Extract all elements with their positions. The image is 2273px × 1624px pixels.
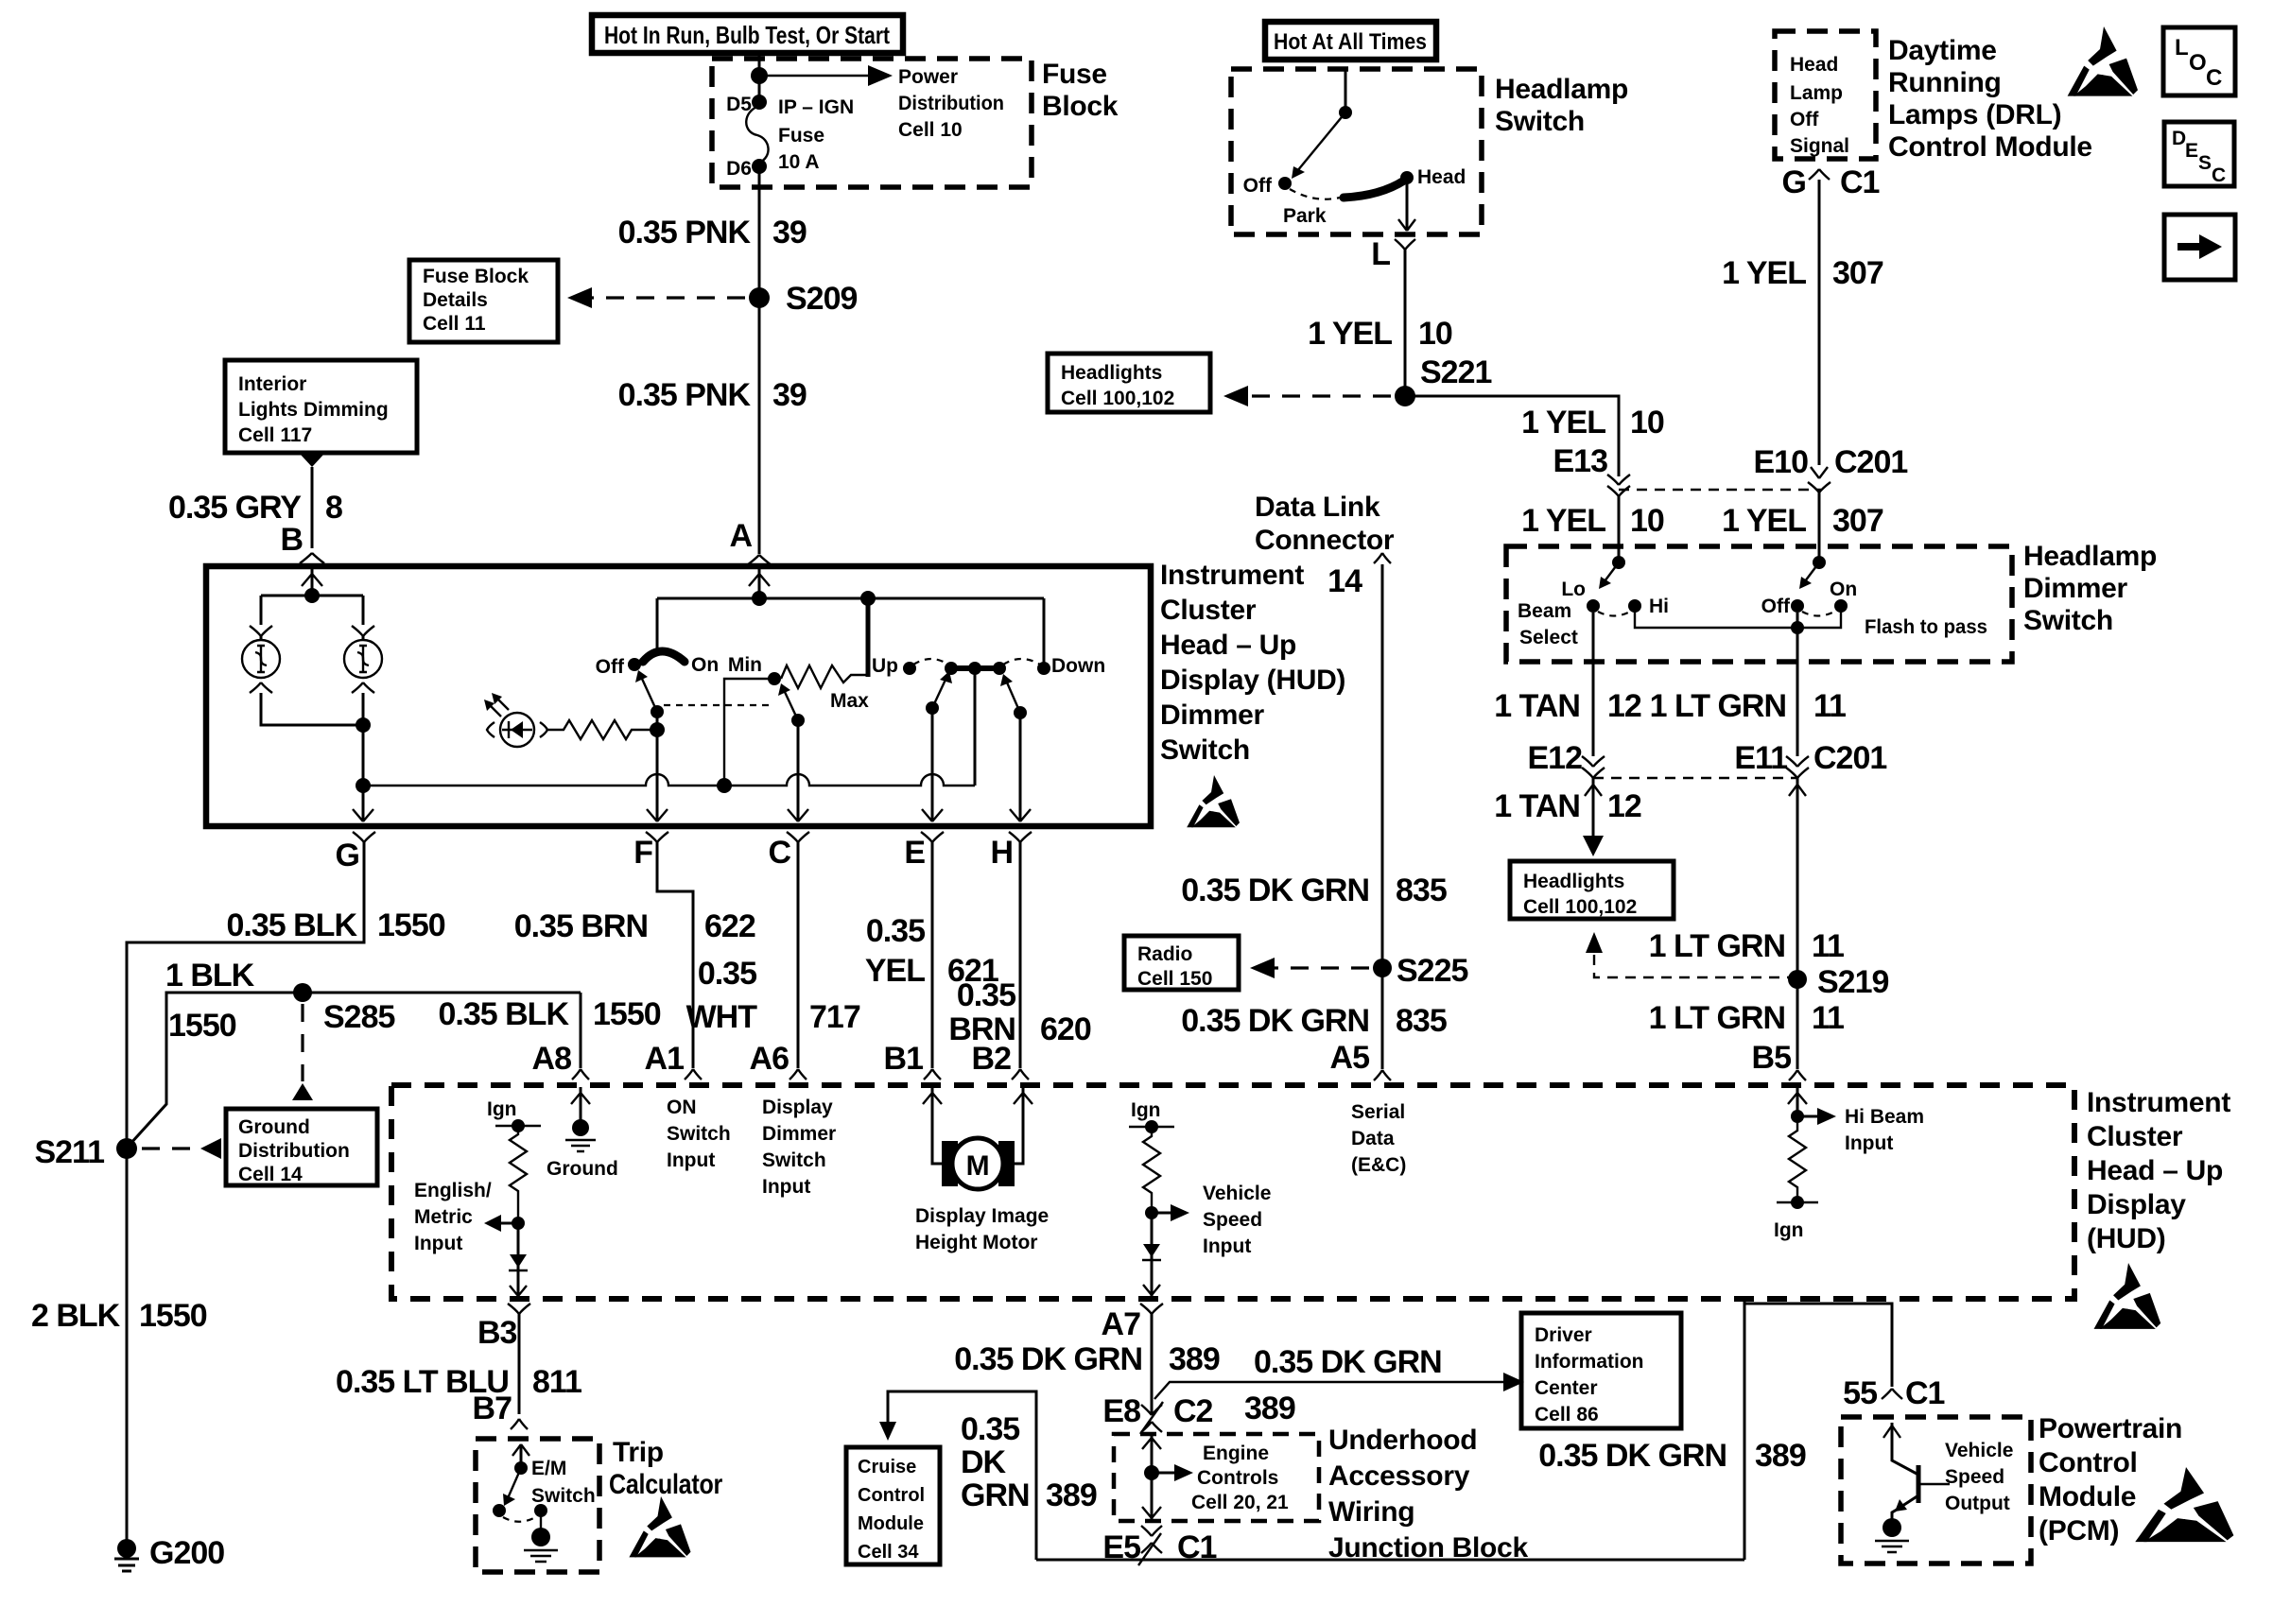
wire E11 to B5 xyxy=(1796,778,1799,1069)
svg-text:Power: Power xyxy=(898,66,958,88)
svg-text:ON: ON xyxy=(667,1097,697,1118)
svg-text:Headlamp: Headlamp xyxy=(1495,74,1628,105)
box Ground Distribution Cell 14 xyxy=(226,1109,377,1185)
connector A chevron xyxy=(747,555,772,565)
svg-text:Input: Input xyxy=(1845,1132,1893,1154)
box Headlights Cell 100,102 lower xyxy=(1510,861,1674,919)
svg-text:Input: Input xyxy=(414,1233,462,1254)
dashed S225 to radio xyxy=(1267,966,1369,969)
svg-text:Cluster: Cluster xyxy=(1160,595,1257,626)
switch arm HUD on/off xyxy=(651,705,664,718)
svg-text:M: M xyxy=(966,1150,990,1182)
fuse block dashed box xyxy=(712,59,1032,187)
svg-text:Fuse: Fuse xyxy=(1042,59,1107,90)
svg-text:D6: D6 xyxy=(726,158,752,180)
svg-text:1550: 1550 xyxy=(377,907,445,943)
svg-text:B1: B1 xyxy=(884,1041,924,1077)
svg-text:1550: 1550 xyxy=(593,996,661,1032)
ESD symbol below HUD label xyxy=(2094,1263,2161,1329)
svg-text:Down: Down xyxy=(1051,655,1105,677)
node D6 xyxy=(752,159,767,174)
wire E to B1 xyxy=(931,842,934,1068)
svg-text:O: O xyxy=(2189,50,2207,76)
node A bus junction xyxy=(752,591,767,606)
DESC box xyxy=(2164,122,2234,186)
svg-text:S219: S219 xyxy=(1817,964,1888,1000)
svg-text:E13: E13 xyxy=(1553,443,1608,479)
wire below lamps xyxy=(261,693,363,786)
node lamp bottom junction xyxy=(356,717,371,733)
connector C chevron xyxy=(787,832,809,842)
engine controls dashed box xyxy=(1114,1434,1319,1521)
wire slider mid to bottom bus xyxy=(974,668,977,786)
node S285 xyxy=(293,983,312,1002)
wire C to A6 xyxy=(797,842,800,1068)
node D5 xyxy=(752,95,767,110)
connector chevron right lamp xyxy=(352,626,374,636)
label Instrument Cluster Head-Up Display (HUD) right side xyxy=(2087,1087,2230,1254)
node pot top junction xyxy=(860,591,876,606)
svg-text:E12: E12 xyxy=(1528,740,1583,776)
svg-text:(HUD): (HUD) xyxy=(2087,1223,2165,1254)
wire A8 drop xyxy=(580,993,582,1068)
svg-text:A: A xyxy=(729,518,752,554)
svg-text:717: 717 xyxy=(809,999,860,1035)
svg-text:0.35 PNK: 0.35 PNK xyxy=(618,215,752,251)
svg-text:Data Link: Data Link xyxy=(1255,492,1380,523)
svg-text:E11: E11 xyxy=(1734,740,1787,776)
svg-text:Running: Running xyxy=(1888,67,2002,98)
label Serial Data (E&C) xyxy=(1351,1101,1406,1176)
instrument cluster HUD dimmer switch box xyxy=(206,566,1151,826)
svg-text:Data: Data xyxy=(1351,1128,1395,1149)
ESD symbol PCM xyxy=(2135,1467,2233,1542)
PCM dashed box xyxy=(1841,1417,2031,1564)
box Fuse Block Details Cell 11 xyxy=(409,260,558,342)
svg-text:12: 12 xyxy=(1607,788,1641,824)
svg-text:Serial: Serial xyxy=(1351,1101,1405,1123)
slider bar xyxy=(951,665,999,671)
connector DLC chevron xyxy=(1374,553,1391,563)
fuse F IP-IGN 10A xyxy=(746,106,768,163)
flash to pass link xyxy=(1635,606,1841,628)
svg-text:Underhood: Underhood xyxy=(1328,1425,1477,1456)
svg-text:835: 835 xyxy=(1396,1003,1447,1039)
svg-text:C201: C201 xyxy=(1834,444,1907,480)
ESD symbol below dimmer switch label xyxy=(1187,775,1240,827)
ESD symbol DRL xyxy=(2068,26,2138,96)
diode symbol on B3 wire xyxy=(517,1223,520,1297)
svg-text:Control Module: Control Module xyxy=(1888,131,2092,163)
svg-text:0.35 DK GRN: 0.35 DK GRN xyxy=(1181,1003,1369,1039)
diode on A7 wire xyxy=(1151,1213,1154,1296)
svg-text:Calculator: Calculator xyxy=(609,1469,723,1500)
svg-text:1 TAN: 1 TAN xyxy=(1494,788,1580,824)
svg-text:Information: Information xyxy=(1535,1351,1644,1373)
svg-text:Instrument: Instrument xyxy=(2087,1087,2230,1118)
svg-text:S: S xyxy=(2198,152,2212,174)
svg-text:Head – Up: Head – Up xyxy=(2087,1155,2223,1186)
svg-text:Trip: Trip xyxy=(613,1437,664,1468)
svg-text:0.35 DK GRN: 0.35 DK GRN xyxy=(1254,1344,1442,1380)
lamp left (illumination bulb) xyxy=(242,636,280,678)
node S211 xyxy=(116,1138,137,1159)
LOC box xyxy=(2163,27,2235,95)
svg-text:Display (HUD): Display (HUD) xyxy=(1160,665,1345,696)
wire off to E11 xyxy=(1796,613,1799,756)
dashed connector line C201 upper xyxy=(1619,489,1821,491)
svg-text:C1: C1 xyxy=(1905,1375,1945,1411)
switch on/off thick arc xyxy=(643,651,685,662)
svg-text:Cell 117: Cell 117 xyxy=(238,424,312,446)
connector A1 chevron xyxy=(685,1069,702,1080)
wire G exit with arrow xyxy=(362,786,365,821)
svg-text:Interior: Interior xyxy=(238,373,306,395)
wire 0.35 PNK 39 from fuse to S209 xyxy=(758,170,761,554)
connector E chevron xyxy=(921,832,944,842)
svg-text:Module: Module xyxy=(2039,1481,2136,1512)
svg-text:0.35: 0.35 xyxy=(961,1411,1019,1447)
svg-text:11: 11 xyxy=(1812,928,1844,964)
wire E12 down with arrow to headlights xyxy=(1592,778,1595,841)
svg-text:1 YEL: 1 YEL xyxy=(1521,405,1605,441)
svg-text:Hot In Run, Bulb Test, Or Star: Hot In Run, Bulb Test, Or Start xyxy=(604,21,890,49)
svg-text:Display: Display xyxy=(762,1097,833,1118)
resistor photocell series xyxy=(547,720,657,739)
wire 1 YEL 307 from DRL xyxy=(1818,180,1821,465)
dashed coupling link xyxy=(664,704,773,706)
svg-text:YEL: YEL xyxy=(865,953,925,989)
svg-text:Details: Details xyxy=(423,289,488,311)
arrow up to headlights lower box xyxy=(1586,932,1603,953)
connector B2 chevron xyxy=(1012,1069,1029,1080)
svg-text:On: On xyxy=(1830,579,1857,600)
box Interior Lights Dimming Cell 117 xyxy=(225,360,417,453)
chevron right of photocell xyxy=(540,722,547,737)
svg-text:B7: B7 xyxy=(473,1391,512,1426)
svg-text:Powertrain: Powertrain xyxy=(2039,1413,2182,1444)
svg-text:Flash to pass: Flash to pass xyxy=(1865,616,1987,638)
svg-text:1 BLK: 1 BLK xyxy=(165,958,255,993)
svg-text:Output: Output xyxy=(1945,1493,2010,1514)
svg-text:12: 12 xyxy=(1607,688,1641,724)
bottom bus with hops xyxy=(363,774,975,786)
svg-text:C: C xyxy=(768,835,790,871)
svg-text:C1: C1 xyxy=(1840,164,1880,200)
svg-text:Hot At All Times: Hot At All Times xyxy=(1274,29,1427,55)
svg-text:Cell 150: Cell 150 xyxy=(1137,968,1212,990)
svg-text:Fuse: Fuse xyxy=(778,125,824,147)
svg-text:Input: Input xyxy=(762,1176,810,1198)
wire B entry arrow inside box xyxy=(311,569,314,596)
lo beam select switch xyxy=(1587,556,1641,616)
svg-text:0.35 DK GRN: 0.35 DK GRN xyxy=(1181,872,1369,908)
svg-text:0.35: 0.35 xyxy=(866,913,925,949)
svg-text:DK: DK xyxy=(961,1444,1007,1480)
switch arm E xyxy=(926,701,939,715)
svg-text:Controls: Controls xyxy=(1197,1467,1278,1489)
HUD dashed box xyxy=(391,1085,2074,1299)
svg-text:Hi: Hi xyxy=(1649,596,1669,617)
connector A6 chevron xyxy=(789,1069,807,1080)
svg-text:307: 307 xyxy=(1832,255,1883,291)
svg-text:Switch: Switch xyxy=(531,1485,596,1507)
svg-text:Off: Off xyxy=(1761,596,1791,617)
wire G 0.35 BLK 1550 xyxy=(127,842,364,1541)
label Display Dimmer Switch Input xyxy=(762,1097,836,1198)
headlamp switch internals xyxy=(1278,69,1415,231)
svg-text:Wiring: Wiring xyxy=(1328,1496,1414,1528)
svg-text:Height Motor: Height Motor xyxy=(915,1232,1037,1253)
svg-text:10: 10 xyxy=(1630,503,1664,539)
svg-text:S285: S285 xyxy=(323,999,394,1035)
svg-text:Cell 14: Cell 14 xyxy=(238,1164,303,1185)
wire arrow to Power Distribution xyxy=(759,75,872,77)
svg-text:Fuse Block: Fuse Block xyxy=(423,266,529,287)
wire E drop xyxy=(931,708,934,821)
svg-text:1 LT GRN: 1 LT GRN xyxy=(1649,1000,1785,1036)
node english/metric junction xyxy=(512,1217,525,1230)
svg-text:L: L xyxy=(1371,236,1390,272)
wire F drop xyxy=(656,712,659,821)
svg-text:Block: Block xyxy=(1042,91,1119,122)
wire Min terminal to bus xyxy=(724,679,774,786)
svg-text:D5: D5 xyxy=(726,94,752,115)
svg-text:B: B xyxy=(280,522,303,558)
svg-text:English/: English/ xyxy=(414,1180,492,1201)
svg-text:F: F xyxy=(633,835,652,871)
svg-text:Head: Head xyxy=(1417,166,1466,188)
svg-text:Ground: Ground xyxy=(238,1116,310,1138)
svg-text:39: 39 xyxy=(772,377,807,413)
svg-text:0.35 DK GRN: 0.35 DK GRN xyxy=(1538,1438,1726,1474)
wire bus drop to On/Off switch xyxy=(656,598,659,653)
svg-text:D: D xyxy=(2172,128,2186,149)
svg-text:Beam: Beam xyxy=(1518,600,1571,622)
wire C drop xyxy=(797,720,800,821)
svg-text:Head – Up: Head – Up xyxy=(1160,630,1296,661)
box Driver Information Center Cell 86 xyxy=(1521,1313,1681,1428)
trip calculator dashed box xyxy=(476,1439,599,1572)
label Headlamp Dimmer Switch xyxy=(2023,541,2157,636)
label Instrument Cluster Head-Up Display (HUD) Dimmer Switch xyxy=(1160,560,1345,766)
vehicle speed ign resistor inside HUD xyxy=(1129,1099,1189,1221)
svg-text:Max: Max xyxy=(830,690,869,712)
label Power Distribution Cell 10 xyxy=(898,66,1004,141)
svg-text:E: E xyxy=(2185,140,2198,162)
svg-text:Hi Beam: Hi Beam xyxy=(1845,1106,1924,1128)
svg-text:GRN: GRN xyxy=(961,1477,1030,1513)
svg-text:H: H xyxy=(990,835,1013,871)
svg-text:A5: A5 xyxy=(1330,1040,1370,1076)
dashed S285 to ground distribution xyxy=(301,1004,304,1081)
label IP-IGN Fuse 10 A xyxy=(778,96,854,173)
label 0.35 DK GRN stacked xyxy=(961,1411,1097,1513)
label Powertrain Control Module (PCM) xyxy=(2039,1413,2182,1546)
svg-text:S209: S209 xyxy=(786,281,857,317)
node top junction xyxy=(751,67,768,84)
svg-text:0.35: 0.35 xyxy=(698,956,756,992)
svg-text:E/M: E/M xyxy=(531,1458,566,1479)
wire DLC to A5 xyxy=(1381,564,1384,1069)
connector chevron left lamp xyxy=(250,626,272,636)
svg-text:Accessory: Accessory xyxy=(1328,1460,1470,1492)
svg-text:835: 835 xyxy=(1396,872,1447,908)
ign feed left inside HUD xyxy=(487,1098,541,1132)
svg-text:Off: Off xyxy=(1243,175,1273,197)
node Min bus junction xyxy=(717,778,732,793)
node S221 xyxy=(1395,386,1415,406)
svg-text:Input: Input xyxy=(667,1149,715,1171)
svg-text:Lamps (DRL): Lamps (DRL) xyxy=(1888,99,2061,130)
photocell light arrows xyxy=(488,697,509,717)
label Fuse Block xyxy=(1042,59,1119,122)
svg-text:Switch: Switch xyxy=(762,1149,826,1171)
svg-text:C: C xyxy=(2206,65,2222,91)
resistor potentiometer xyxy=(781,665,868,688)
svg-text:622: 622 xyxy=(704,908,755,944)
svg-text:Off: Off xyxy=(596,656,625,678)
svg-text:E10: E10 xyxy=(1754,444,1809,480)
svg-text:B3: B3 xyxy=(477,1315,517,1351)
wire A entry arrow xyxy=(758,569,761,598)
wire bus drop to Down xyxy=(1043,598,1046,668)
wire lamp branch bus xyxy=(261,596,363,625)
wire S221 to E13 xyxy=(1405,396,1619,476)
svg-text:Driver: Driver xyxy=(1535,1324,1592,1346)
svg-text:(PCM): (PCM) xyxy=(2039,1515,2119,1546)
svg-text:Headlights: Headlights xyxy=(1523,871,1624,892)
svg-text:Distribution: Distribution xyxy=(238,1140,350,1162)
svg-text:0.35 BLK: 0.35 BLK xyxy=(227,907,358,943)
chevron below left lamp xyxy=(250,682,272,693)
wire junction block bottom run xyxy=(1036,1559,1744,1562)
svg-text:Min: Min xyxy=(728,654,762,676)
svg-text:8: 8 xyxy=(325,490,342,526)
svg-text:Radio: Radio xyxy=(1137,943,1192,965)
chevron left of photocell xyxy=(487,722,495,737)
svg-text:811: 811 xyxy=(532,1364,581,1400)
svg-text:Up: Up xyxy=(872,655,898,677)
svg-text:C201: C201 xyxy=(1813,740,1886,776)
top bus inside box xyxy=(657,597,1044,600)
svg-text:Vehicle: Vehicle xyxy=(1945,1440,2013,1461)
wire 1 BLK 1550 horizontal xyxy=(130,993,581,1145)
svg-text:389: 389 xyxy=(1755,1438,1806,1474)
svg-text:Cluster: Cluster xyxy=(2087,1121,2183,1152)
svg-text:Ign: Ign xyxy=(487,1098,517,1120)
svg-text:A1: A1 xyxy=(645,1041,685,1077)
svg-text:Center: Center xyxy=(1535,1377,1598,1399)
svg-text:1550: 1550 xyxy=(168,1008,236,1044)
svg-text:0.35 GRY: 0.35 GRY xyxy=(168,490,302,526)
svg-text:Park: Park xyxy=(1283,205,1327,227)
connector A8 chevron xyxy=(572,1069,589,1080)
arrow from Interior box down xyxy=(301,455,323,467)
branch to driver information center xyxy=(1154,1382,1510,1399)
wire from Hot box into fuse block xyxy=(758,53,761,102)
arrow to English/Metric Input xyxy=(499,1222,518,1225)
label ON Switch Input xyxy=(667,1097,731,1171)
svg-text:Headlights: Headlights xyxy=(1061,362,1162,384)
label Headlamp Switch xyxy=(1495,74,1628,137)
wire 0.35 GRY 8 xyxy=(311,467,314,548)
svg-text:Cell 34: Cell 34 xyxy=(858,1542,919,1563)
svg-text:1 YEL: 1 YEL xyxy=(1308,316,1392,352)
connector F chevron xyxy=(646,832,668,842)
svg-text:G: G xyxy=(1782,164,1806,200)
connector E13 double chevron xyxy=(1607,475,1630,496)
ground inside HUD at A8 xyxy=(547,1087,618,1180)
power label box "Hot In Run, Bulb Test, Or Start" xyxy=(592,15,903,53)
svg-text:B2: B2 xyxy=(972,1041,1012,1077)
connector B3 below HUD xyxy=(508,1304,530,1314)
dashed S211 to ground distribution box xyxy=(142,1147,202,1149)
svg-text:Select: Select xyxy=(1519,627,1578,648)
svg-text:0.35 DK GRN: 0.35 DK GRN xyxy=(954,1341,1142,1377)
wire A7 0.35 DK GRN 389 xyxy=(1151,1314,1154,1414)
svg-text:Dimmer: Dimmer xyxy=(2023,573,2128,604)
dashed arrow S209 to Fuse Block Details xyxy=(584,296,745,299)
wire 0.35 LT BLU 811 xyxy=(518,1314,521,1414)
connector B1 chevron xyxy=(924,1069,941,1080)
svg-text:Display Image: Display Image xyxy=(915,1205,1049,1227)
svg-text:Engine: Engine xyxy=(1203,1443,1269,1464)
DRL module dashed box xyxy=(1775,31,1876,159)
svg-text:S211: S211 xyxy=(34,1134,104,1170)
box Radio Cell 150 xyxy=(1124,936,1239,990)
headlamp switch dashed box xyxy=(1231,69,1482,234)
motor arms B1 B2 xyxy=(932,1087,1023,1164)
svg-text:1 LT GRN: 1 LT GRN xyxy=(1650,688,1786,724)
svg-text:Switch: Switch xyxy=(1495,106,1585,137)
svg-text:Lights Dimming: Lights Dimming xyxy=(238,399,389,421)
ESD symbol trip calculator xyxy=(629,1496,690,1557)
svg-text:1 TAN: 1 TAN xyxy=(1494,688,1580,724)
svg-text:Lamp: Lamp xyxy=(1790,82,1843,104)
node S209 xyxy=(749,287,770,308)
svg-text:B5: B5 xyxy=(1752,1040,1792,1076)
svg-text:On: On xyxy=(691,654,719,676)
svg-text:Cell 11: Cell 11 xyxy=(423,313,486,335)
svg-text:1 YEL: 1 YEL xyxy=(1722,503,1806,539)
svg-text:Cell 10: Cell 10 xyxy=(898,119,963,141)
node resistor to F wire xyxy=(650,722,665,737)
motor M display image height xyxy=(942,1138,1015,1189)
headlamp dimmer switch dashed box xyxy=(1506,546,2012,662)
svg-text:A8: A8 xyxy=(532,1041,572,1077)
svg-text:11: 11 xyxy=(1813,688,1846,724)
dashed S221 to headlights box xyxy=(1241,394,1391,397)
svg-text:2 BLK: 2 BLK xyxy=(31,1298,121,1334)
svg-text:0.35: 0.35 xyxy=(957,977,1015,1013)
svg-text:S221: S221 xyxy=(1420,354,1491,390)
svg-text:Cell 20, 21: Cell 20, 21 xyxy=(1191,1492,1289,1513)
svg-text:A7: A7 xyxy=(1102,1306,1141,1342)
label Data Link Connector xyxy=(1255,492,1395,599)
connector B chevron xyxy=(300,553,324,563)
svg-text:1 YEL: 1 YEL xyxy=(1521,503,1605,539)
svg-text:39: 39 xyxy=(772,215,807,251)
wire H to B2 xyxy=(1019,842,1022,1068)
svg-text:Headlamp: Headlamp xyxy=(2023,541,2157,572)
svg-text:0.35 BLK: 0.35 BLK xyxy=(439,996,570,1032)
svg-text:L: L xyxy=(2175,35,2189,60)
svg-text:Lo: Lo xyxy=(1561,579,1586,600)
svg-text:S225: S225 xyxy=(1397,953,1467,989)
ground G200 xyxy=(114,1539,139,1571)
wire cruise branch xyxy=(888,1391,1036,1560)
